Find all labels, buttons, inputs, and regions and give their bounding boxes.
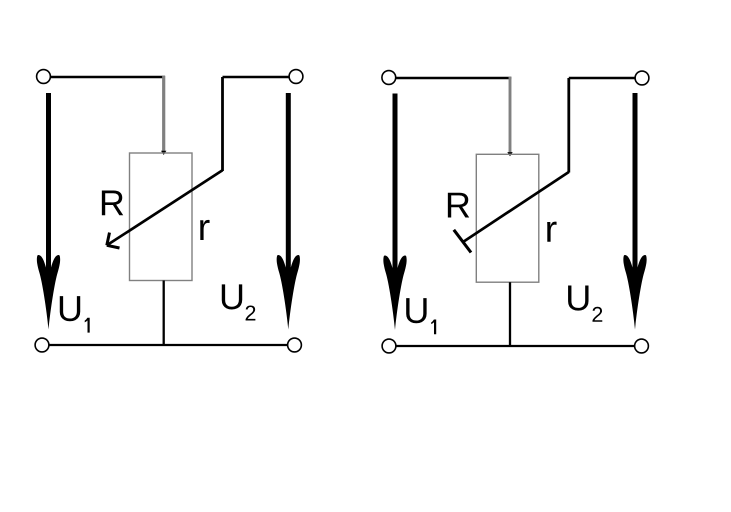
terminal bottom-right (635, 339, 649, 353)
label U2 (222, 284, 256, 320)
wire bottom horizontal (42, 344, 295, 346)
resistor R (box) (476, 154, 539, 282)
terminal top-right (289, 70, 303, 84)
wire top-left horizontal (44, 76, 165, 79)
wiper with tap bar (diagonal) (454, 172, 569, 253)
arrow U2 (right voltage arrow) (623, 93, 646, 330)
terminal bottom-right (288, 338, 302, 352)
arrow U2 (right voltage arrow) (277, 93, 300, 330)
label U2 (568, 286, 602, 322)
terminal top-right (635, 71, 649, 85)
terminal top-left (37, 70, 51, 84)
arrow U1 (left voltage arrow) (37, 93, 60, 330)
wire resistor bottom stub (509, 282, 511, 346)
junction arrowhead at resistor top (507, 152, 512, 156)
wire top-right horizontal (569, 77, 642, 80)
wire top-right vertical (221, 77, 224, 171)
label U1 (406, 298, 436, 334)
wire resistor bottom stub (163, 281, 165, 346)
label U1 (60, 296, 90, 332)
label R (448, 193, 469, 218)
wire top-left horizontal (389, 77, 511, 80)
wire gray stub to resistor top (162, 76, 165, 151)
terminal top-left (382, 71, 396, 85)
label r (547, 222, 556, 242)
wiper arrow (diagonal) (107, 170, 223, 248)
wire gray stub to resistor top (509, 77, 512, 153)
wire bottom horizontal (389, 345, 642, 347)
label R (102, 191, 123, 216)
junction arrowhead at resistor top (161, 151, 166, 155)
wire top-right vertical (567, 78, 570, 173)
label r (200, 220, 209, 240)
wire top-right horizontal (223, 76, 297, 79)
terminal bottom-left (382, 339, 396, 353)
resistor R (box) (130, 153, 193, 281)
terminal bottom-left (35, 338, 49, 352)
arrow U1 (left voltage arrow) (383, 94, 406, 331)
